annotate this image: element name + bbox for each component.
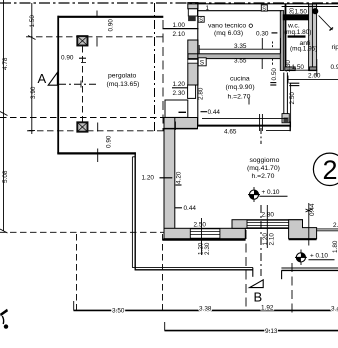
svg-text:(mq.13.65): (mq.13.65) bbox=[107, 81, 140, 88]
svg-text:+ 0.10: + 0.10 bbox=[310, 253, 328, 260]
svg-text:9.13: 9.13 bbox=[265, 328, 278, 335]
svg-text:3.35: 3.35 bbox=[234, 43, 247, 50]
svg-text:1.50: 1.50 bbox=[295, 9, 308, 16]
svg-text:2.60: 2.60 bbox=[308, 73, 321, 80]
svg-text:2.80: 2.80 bbox=[198, 87, 205, 100]
svg-text:B: B bbox=[254, 289, 263, 304]
svg-text:(mq.1.95): (mq.1.95) bbox=[290, 46, 317, 53]
svg-text:soggiorno: soggiorno bbox=[250, 157, 280, 164]
svg-text:0.44: 0.44 bbox=[208, 109, 221, 116]
svg-text:(mq.9.90): (mq.9.90) bbox=[226, 84, 255, 91]
svg-text:A: A bbox=[38, 71, 47, 86]
svg-text:0.44: 0.44 bbox=[309, 203, 316, 216]
svg-text:3.50: 3.50 bbox=[112, 307, 125, 314]
svg-text:4.78: 4.78 bbox=[2, 57, 9, 70]
svg-text:0.30: 0.30 bbox=[256, 31, 269, 38]
svg-text:S: S bbox=[262, 6, 266, 12]
svg-text:(mq.41.70): (mq.41.70) bbox=[247, 165, 280, 172]
svg-text:2.60: 2.60 bbox=[333, 222, 338, 229]
svg-text:1.00: 1.00 bbox=[173, 22, 186, 29]
svg-text:vano tecnico: vano tecnico bbox=[208, 23, 246, 30]
svg-text:S: S bbox=[199, 18, 203, 24]
svg-text:pergolato: pergolato bbox=[108, 73, 137, 80]
svg-text:0.50: 0.50 bbox=[271, 68, 278, 81]
svg-text:h.=2.70: h.=2.70 bbox=[252, 173, 275, 180]
svg-text:+ 0.10: + 0.10 bbox=[262, 189, 280, 196]
svg-text:1: 1 bbox=[206, 5, 210, 12]
svg-text:1.92: 1.92 bbox=[261, 304, 274, 311]
svg-text:(mq.1.80): (mq.1.80) bbox=[284, 29, 311, 36]
svg-text:h.=2.70: h.=2.70 bbox=[228, 94, 251, 101]
svg-text:4.20: 4.20 bbox=[176, 171, 183, 184]
svg-text:2.50: 2.50 bbox=[289, 92, 296, 105]
svg-text:2.10: 2.10 bbox=[268, 233, 275, 246]
svg-text:1.20: 1.20 bbox=[173, 81, 186, 88]
svg-text:3.55: 3.55 bbox=[234, 58, 247, 65]
svg-text:1.20: 1.20 bbox=[142, 175, 155, 182]
svg-text:1.50: 1.50 bbox=[29, 15, 36, 28]
svg-text:3.38: 3.38 bbox=[199, 306, 212, 313]
svg-text:0.44: 0.44 bbox=[184, 205, 197, 212]
svg-text:2.30: 2.30 bbox=[204, 242, 211, 255]
svg-text:0.90: 0.90 bbox=[106, 135, 113, 148]
svg-text:3.40: 3.40 bbox=[331, 306, 338, 313]
svg-text:4.65: 4.65 bbox=[224, 129, 237, 136]
svg-text:S: S bbox=[200, 60, 205, 67]
svg-text:cucina: cucina bbox=[230, 76, 250, 83]
svg-text:1.30: 1.30 bbox=[285, 60, 292, 73]
svg-text:1.20: 1.20 bbox=[290, 8, 296, 19]
svg-text:0.90: 0.90 bbox=[331, 64, 338, 71]
svg-text:ripos: ripos bbox=[332, 44, 338, 51]
svg-text:0.90: 0.90 bbox=[61, 55, 74, 62]
svg-text:2.80: 2.80 bbox=[262, 212, 275, 219]
svg-text:2.30: 2.30 bbox=[173, 90, 186, 97]
svg-text:1.80: 1.80 bbox=[332, 240, 338, 253]
svg-text:5.08: 5.08 bbox=[2, 170, 9, 183]
svg-text:2.10: 2.10 bbox=[173, 31, 186, 38]
svg-text:2: 2 bbox=[323, 155, 338, 185]
svg-text:3.90: 3.90 bbox=[30, 86, 37, 99]
svg-text:1.50: 1.50 bbox=[292, 64, 305, 71]
svg-text:0.90: 0.90 bbox=[107, 19, 114, 32]
svg-text:2.50: 2.50 bbox=[194, 222, 207, 229]
svg-text:(mq 6.03): (mq 6.03) bbox=[214, 30, 243, 37]
